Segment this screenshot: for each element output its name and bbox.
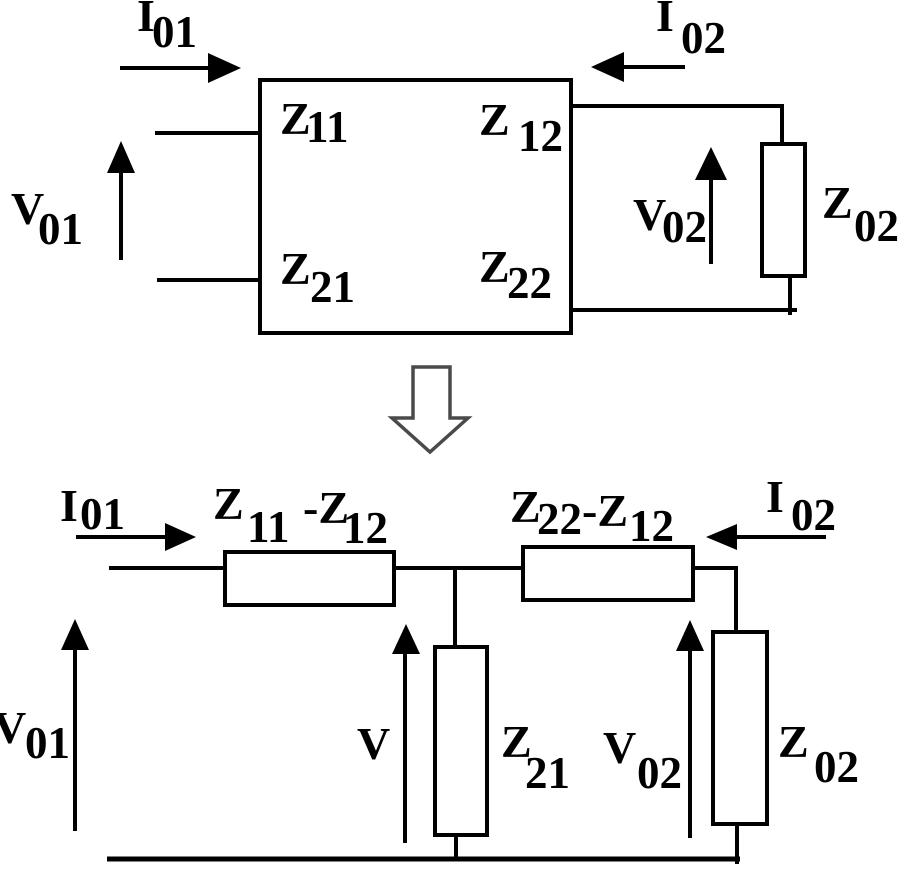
svg-text:22: 22 bbox=[507, 258, 552, 308]
svg-text:02: 02 bbox=[662, 202, 707, 252]
svg-text:22: 22 bbox=[537, 494, 582, 544]
svg-text:21: 21 bbox=[310, 262, 355, 312]
svg-text:02: 02 bbox=[681, 13, 726, 63]
svg-text:I: I bbox=[766, 471, 784, 522]
svg-text:02: 02 bbox=[854, 201, 899, 251]
svg-text:Z: Z bbox=[778, 716, 809, 767]
svg-text:02: 02 bbox=[637, 748, 682, 798]
svg-text:11: 11 bbox=[306, 102, 349, 152]
svg-text:Z: Z bbox=[280, 243, 311, 294]
svg-text:Z: Z bbox=[479, 241, 510, 292]
svg-text:01: 01 bbox=[38, 204, 83, 254]
svg-text:Z: Z bbox=[213, 478, 244, 529]
svg-text:V: V bbox=[603, 722, 636, 773]
svg-text:I: I bbox=[656, 0, 674, 41]
svg-text:12: 12 bbox=[518, 111, 563, 161]
svg-text:21: 21 bbox=[525, 748, 570, 798]
svg-text:Z: Z bbox=[822, 177, 853, 228]
svg-text:12: 12 bbox=[629, 501, 674, 551]
svg-text:01: 01 bbox=[80, 489, 125, 539]
svg-text:01: 01 bbox=[25, 718, 70, 768]
svg-text:02: 02 bbox=[791, 490, 836, 540]
svg-text:01: 01 bbox=[152, 7, 197, 57]
svg-text:02: 02 bbox=[814, 742, 859, 792]
svg-text:V: V bbox=[0, 702, 26, 753]
svg-text:-Z: -Z bbox=[582, 485, 628, 536]
svg-text:I: I bbox=[60, 480, 78, 531]
svg-text:11: 11 bbox=[247, 502, 290, 552]
svg-text:12: 12 bbox=[343, 503, 388, 553]
svg-text:V: V bbox=[357, 718, 390, 769]
svg-text:Z: Z bbox=[479, 94, 510, 145]
